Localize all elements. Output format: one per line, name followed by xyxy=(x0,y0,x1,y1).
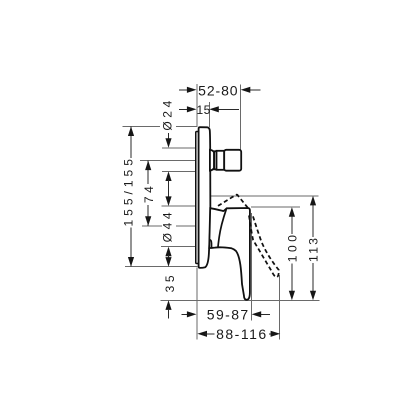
svg-text:74: 74 xyxy=(142,183,156,204)
svg-text:88-116: 88-116 xyxy=(216,326,268,342)
svg-text:100: 100 xyxy=(286,231,300,262)
svg-text:15: 15 xyxy=(197,103,211,117)
svg-text:Ø44: Ø44 xyxy=(160,209,174,242)
svg-text:52-80: 52-80 xyxy=(198,82,238,98)
svg-text:Ø24: Ø24 xyxy=(161,97,175,130)
svg-text:113: 113 xyxy=(307,236,321,262)
svg-text:35: 35 xyxy=(163,272,177,293)
svg-text:155/155: 155/155 xyxy=(121,155,135,226)
svg-text:59-87: 59-87 xyxy=(207,307,250,323)
